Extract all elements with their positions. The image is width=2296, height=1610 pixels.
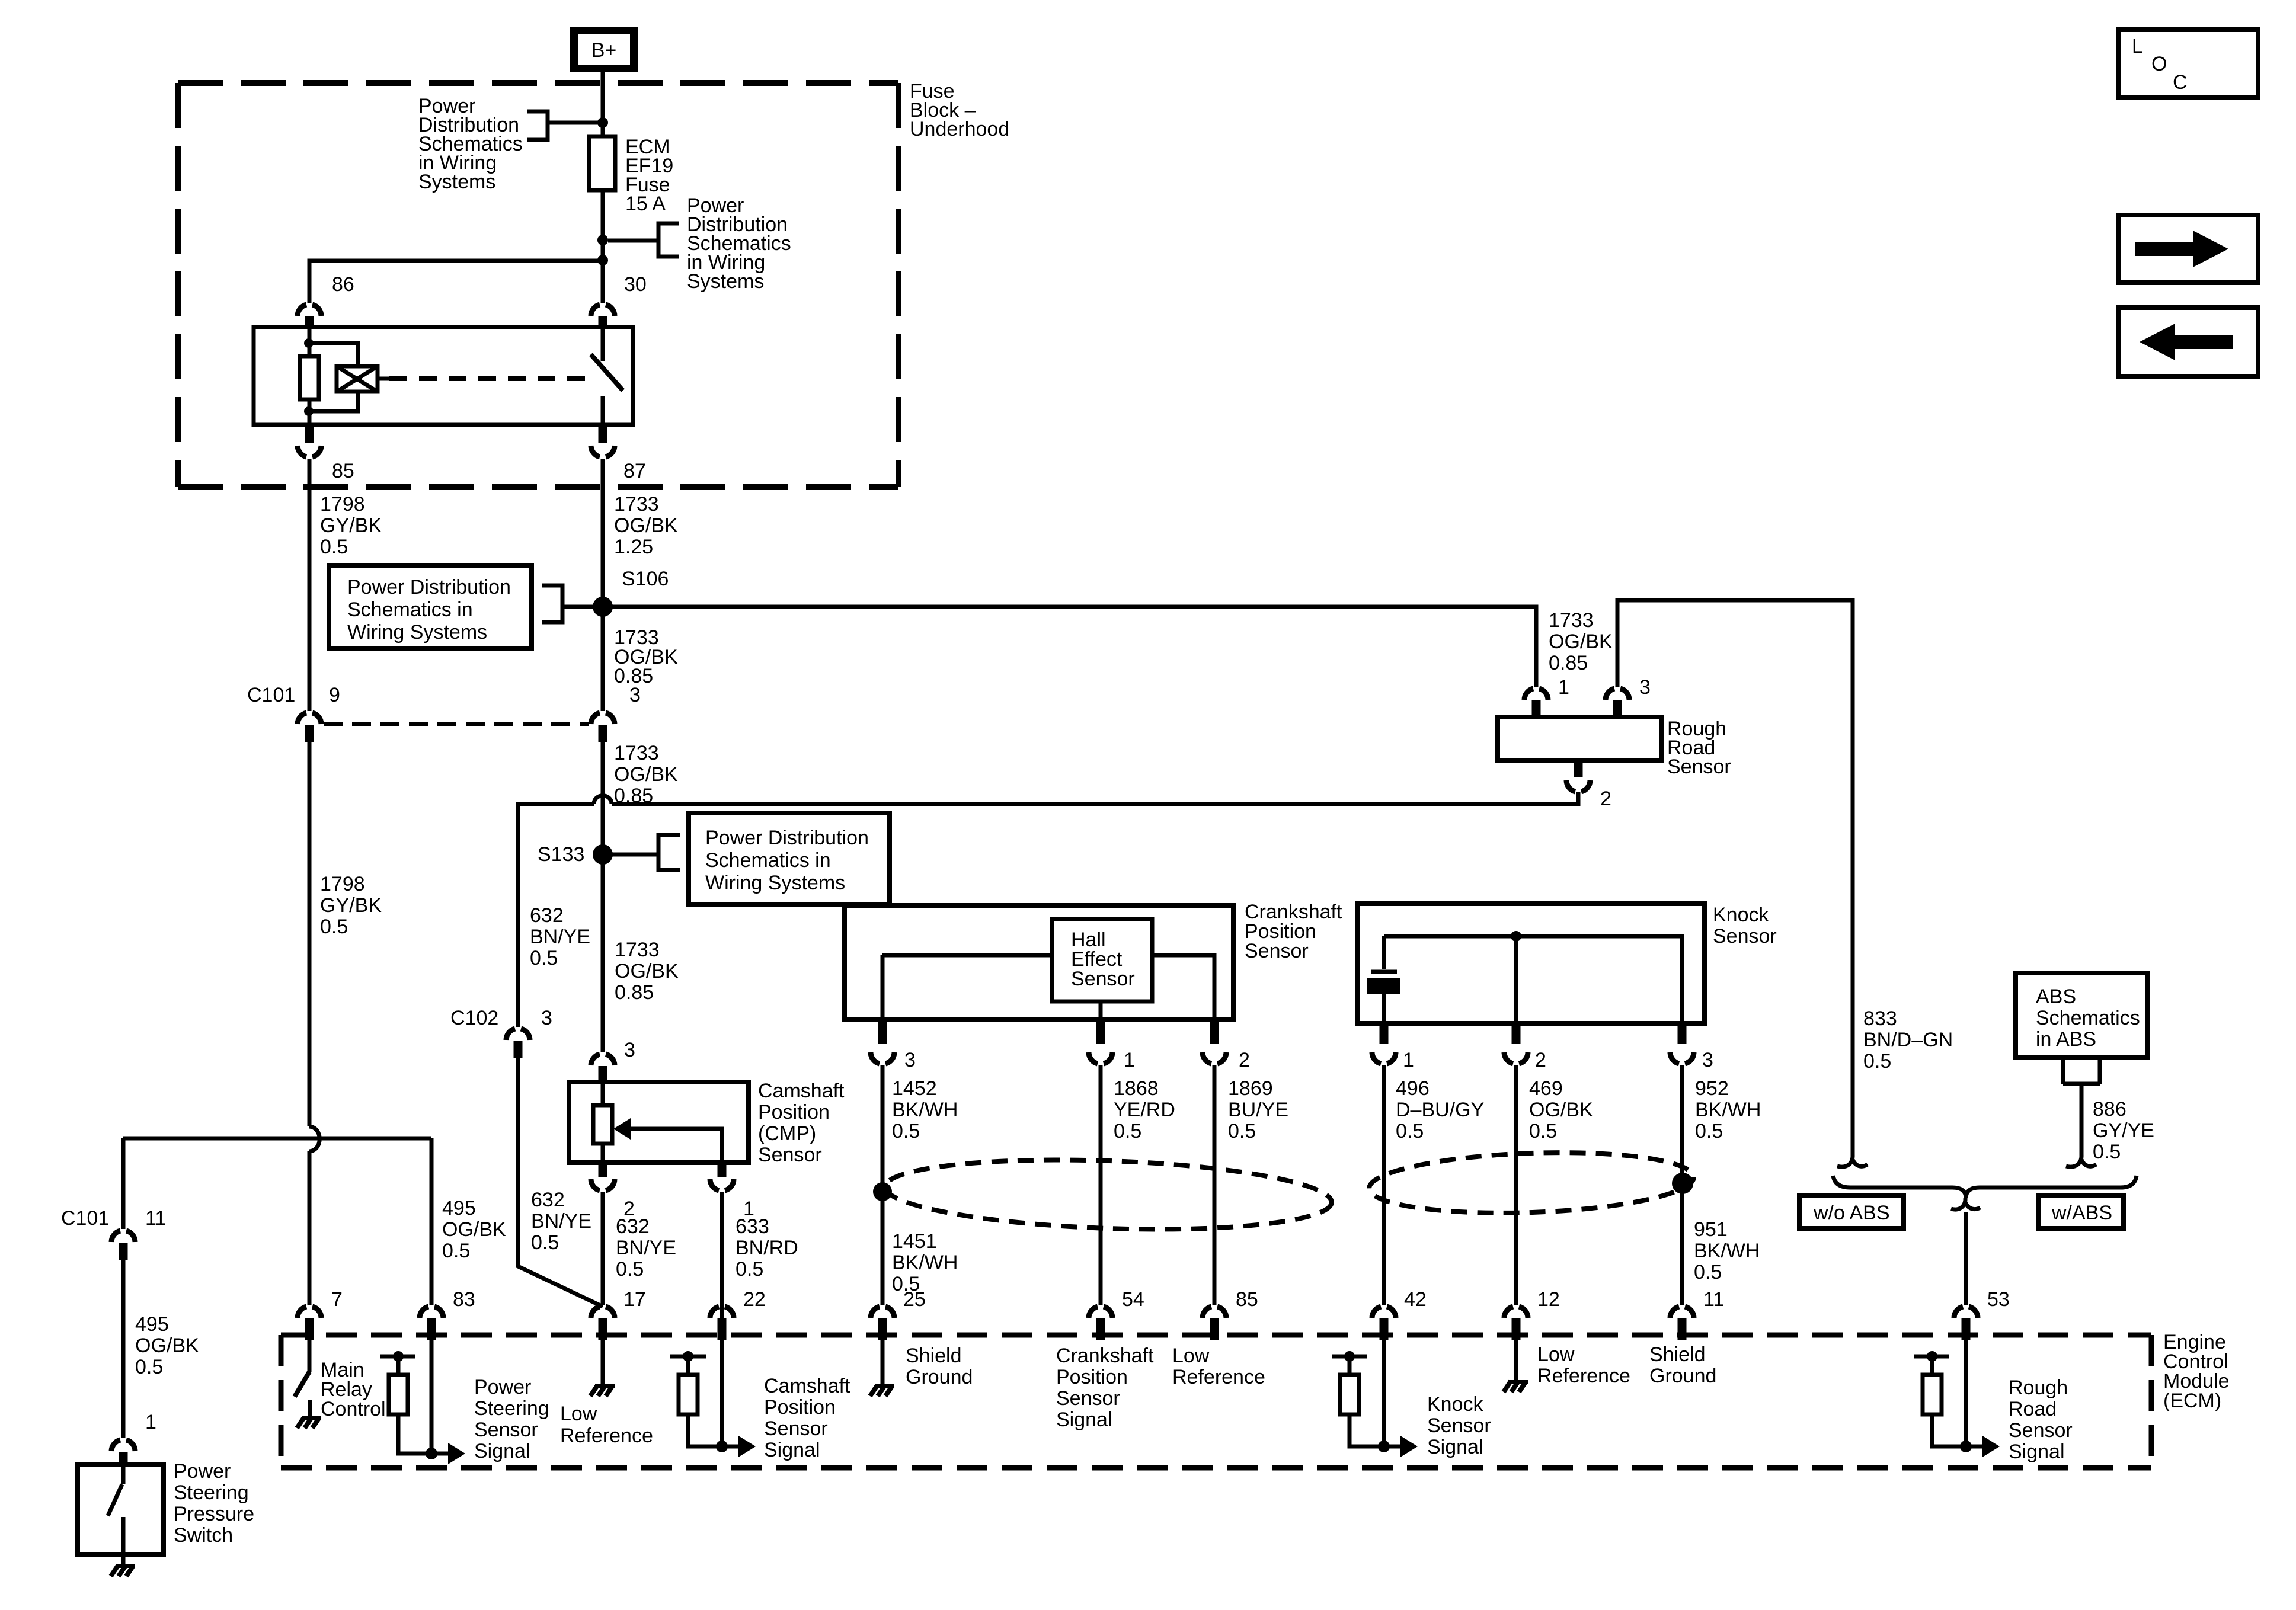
svg-text:1: 1 [1124, 1049, 1135, 1071]
shield ellipse (crank) [884, 1153, 1333, 1236]
svg-text:632: 632 [616, 1215, 650, 1238]
svg-text:S106: S106 [622, 568, 669, 590]
pin 86 connector [298, 305, 321, 316]
svg-text:Signal: Signal [1427, 1436, 1483, 1458]
label 1733 OG/BK 0.85 (below S106) [614, 626, 678, 687]
svg-text:ABS: ABS [2036, 985, 2076, 1008]
CMP pin 1 connector [718, 1164, 727, 1177]
wire pin 83 into ECM [430, 1340, 434, 1454]
svg-text:C102: C102 [450, 1007, 498, 1029]
label Camshaft Position Sensor Signal [764, 1375, 850, 1461]
svg-text:0.5: 0.5 [135, 1356, 163, 1378]
svg-text:3: 3 [904, 1049, 916, 1071]
svg-text:Camshaft: Camshaft [764, 1375, 850, 1397]
back arrow box [2118, 308, 2258, 376]
node: supply dot [1927, 1351, 1937, 1362]
knock sensor internal wires [1384, 936, 1682, 1023]
connector C101 pin 3 [591, 713, 615, 724]
svg-text:Low: Low [560, 1403, 597, 1425]
svg-text:87: 87 [623, 460, 646, 482]
ECM pin 42 connector [1372, 1307, 1396, 1318]
bracket: power distribution reference at S133 [658, 835, 680, 870]
svg-text:12: 12 [1537, 1288, 1560, 1311]
svg-text:C: C [2173, 71, 2188, 94]
arrow camshaft position sensor signal [722, 1445, 741, 1449]
wire 1869 BU/YE to ECM 85 [1213, 1065, 1217, 1305]
pin 30 connector [591, 305, 615, 316]
wire switch to ground [121, 1554, 126, 1565]
boxed label Power Distribution Schematics in Wiring Systems (S133) [689, 813, 890, 904]
wire fuse to relay pin 30 [601, 190, 605, 303]
svg-text:Switch: Switch [174, 1524, 233, 1547]
crank sensor internal wires [882, 955, 1214, 1019]
svg-text:YE/RD: YE/RD [1114, 1099, 1175, 1121]
svg-text:83: 83 [453, 1288, 475, 1311]
svg-text:86: 86 [332, 273, 354, 296]
wire 886 GY/YE [2080, 1084, 2084, 1156]
wire 1733 OG/BK relay 87 to S106 [601, 459, 605, 711]
svg-text:Ground: Ground [906, 1366, 973, 1388]
relay coil (crossed box) [337, 366, 378, 392]
label 632 BN/YE 0.5 (CMP signal low) [616, 1215, 676, 1281]
svg-text:0.5: 0.5 [320, 536, 348, 558]
wire B+ to fuse [601, 72, 605, 136]
svg-text:Sensor: Sensor [1427, 1414, 1491, 1437]
wire 496 D-BU/GY to ECM 42 [1382, 1065, 1386, 1305]
svg-text:BK/WH: BK/WH [892, 1099, 958, 1121]
wire hop over main relay wire [309, 1126, 319, 1151]
CMP potentiometer [601, 1082, 605, 1163]
wire 1733 OG/BK C101-3 to S133 [601, 742, 605, 1052]
svg-text:Sensor: Sensor [1071, 968, 1135, 990]
arrow knock sensor signal [1384, 1445, 1403, 1449]
svg-text:1869: 1869 [1228, 1077, 1273, 1100]
svg-text:Sensor: Sensor [1667, 756, 1731, 778]
svg-text:Rough: Rough [2009, 1377, 2068, 1399]
svg-text:1798: 1798 [320, 873, 365, 895]
svg-text:O: O [2151, 53, 2167, 75]
node: knock shield splice dot [1672, 1173, 1693, 1194]
svg-text:OG/BK: OG/BK [614, 514, 678, 537]
svg-text:GY/BK: GY/BK [320, 514, 382, 537]
power steering pressure switch box [78, 1465, 164, 1554]
svg-text:Wiring Systems: Wiring Systems [347, 621, 487, 644]
wire resistor to pin 83 junction [398, 1414, 431, 1454]
svg-text:2: 2 [1600, 788, 1611, 810]
wire S106 to rough road sensor pin 1 [610, 607, 1536, 687]
ECM pin 54 connector [1089, 1307, 1112, 1318]
svg-text:Schematics in: Schematics in [347, 598, 473, 621]
B+ battery feed box [570, 27, 638, 72]
wire 1798 GY/BK C101-9 to ECM pin 7 [308, 742, 312, 1305]
svg-text:BK/WH: BK/WH [1694, 1240, 1760, 1262]
ECM pin 22 connector [710, 1307, 734, 1318]
svg-text:Sensor: Sensor [1713, 925, 1777, 948]
label 1733 OG/BK 0.85 (rough road) [1549, 609, 1613, 674]
svg-text:w/ABS: w/ABS [2051, 1202, 2112, 1224]
ground (main relay control) [302, 1416, 321, 1420]
w/o ABS tag box [1799, 1196, 1904, 1228]
knock pin 3 connector [1678, 1025, 1687, 1044]
LOC legend box [2118, 30, 2258, 97]
svg-text:2: 2 [1535, 1049, 1546, 1071]
svg-text:1: 1 [1403, 1049, 1414, 1071]
svg-text:1.25: 1.25 [614, 536, 653, 558]
bracket below ABS box [2063, 1057, 2100, 1084]
wire resistor to pin 42 junction [1350, 1414, 1384, 1446]
svg-text:Shield: Shield [906, 1345, 962, 1367]
wire pin 53 into ECM [1964, 1340, 1968, 1446]
CMP wiper arrow [628, 1129, 722, 1163]
svg-text:632: 632 [531, 1189, 565, 1211]
label 951 BK/WH 0.5 [1694, 1218, 1760, 1283]
svg-text:0.5: 0.5 [2093, 1141, 2121, 1163]
relay switch [601, 327, 605, 361]
svg-text:0.5: 0.5 [1228, 1120, 1256, 1142]
svg-text:Sensor: Sensor [764, 1417, 828, 1440]
svg-text:Sensor: Sensor [1245, 940, 1309, 962]
svg-text:0.5: 0.5 [1114, 1120, 1141, 1142]
svg-text:1452: 1452 [892, 1077, 937, 1100]
shield ellipse (knock) [1368, 1147, 1694, 1218]
svg-text:1868: 1868 [1114, 1077, 1159, 1100]
hall effect sensor box [1052, 919, 1152, 1001]
ECM pin 17 connector [591, 1307, 615, 1318]
power steering signal pull-up: supply bar [380, 1355, 415, 1359]
svg-text:BK/WH: BK/WH [892, 1251, 958, 1274]
label ECM EF19 Fuse 15 A [625, 136, 673, 215]
svg-text:BN/YE: BN/YE [530, 926, 590, 948]
svg-text:OG/BK: OG/BK [1549, 630, 1613, 653]
label Power Steering Sensor Signal [474, 1376, 549, 1462]
forward arrow box [2118, 215, 2258, 283]
svg-text:D–BU/GY: D–BU/GY [1396, 1099, 1484, 1121]
svg-text:(CMP): (CMP) [758, 1122, 816, 1145]
svg-text:B+: B+ [591, 39, 617, 62]
svg-text:Sensor: Sensor [2009, 1419, 2073, 1442]
label Knock Sensor Signal [1427, 1393, 1491, 1458]
wire rough road pin 3 to 833 drop [1617, 600, 1853, 1156]
wire to right power distribution reference [608, 239, 658, 243]
svg-text:0.85: 0.85 [1549, 652, 1588, 674]
svg-text:0.85: 0.85 [615, 981, 654, 1004]
label Rough Road Sensor [1667, 718, 1731, 778]
svg-text:BN/D–GN: BN/D–GN [1863, 1029, 1953, 1051]
ECM pin 12 connector [1504, 1307, 1528, 1318]
resistor (rough road signal) [1930, 1356, 1934, 1375]
wire 495 OG/BK to pressure switch [121, 1260, 126, 1438]
connector C101 dashed line [324, 722, 589, 726]
svg-text:Low: Low [1172, 1345, 1210, 1367]
svg-text:1451: 1451 [892, 1230, 937, 1253]
svg-text:11: 11 [1703, 1288, 1724, 1311]
svg-text:Sensor: Sensor [1056, 1387, 1120, 1410]
svg-text:Reference: Reference [1172, 1366, 1265, 1388]
svg-text:in ABS: in ABS [2036, 1028, 2096, 1051]
wire 952 BK/WH to ECM 11 [1680, 1065, 1684, 1305]
node: knock internal dot [1511, 931, 1521, 942]
svg-text:1798: 1798 [320, 493, 365, 516]
svg-text:886: 886 [2093, 1098, 2126, 1121]
label Low Reference (pin 12) [1537, 1343, 1630, 1387]
svg-text:OG/BK: OG/BK [615, 960, 679, 982]
pin 85 connector [305, 426, 314, 443]
svg-text:Ground: Ground [1649, 1365, 1716, 1387]
svg-text:Low: Low [1537, 1343, 1575, 1366]
knock piezo element [1371, 970, 1397, 974]
resistor (power steering signal) [396, 1356, 401, 1375]
label 1733 OG/BK 0.85 (below S133) [615, 939, 679, 1004]
node: coil top dot [304, 338, 314, 348]
option hook above pin 53 wire [1951, 1198, 1980, 1209]
svg-text:Position: Position [1056, 1366, 1128, 1388]
ECM pin 53 connector [1954, 1307, 1978, 1318]
wire 1452 BK/WH to ECM 25 [881, 1065, 885, 1305]
svg-text:0.5: 0.5 [530, 947, 558, 969]
option hook end of 886 wire [2066, 1154, 2096, 1167]
label Low Reference (pin 17) [560, 1403, 653, 1447]
svg-text:Sensor: Sensor [474, 1419, 538, 1441]
crank pin 1 connector [1096, 1020, 1105, 1044]
svg-text:0.5: 0.5 [320, 916, 348, 938]
label Crankshaft Position Sensor [1245, 901, 1342, 962]
label 496 D-BU/GY 0.5 [1396, 1077, 1484, 1142]
svg-text:w/o ABS: w/o ABS [1813, 1202, 1890, 1224]
svg-text:Wiring Systems: Wiring Systems [705, 872, 845, 894]
svg-text:Reference: Reference [560, 1425, 653, 1447]
label 633 BN/RD 0.5 [736, 1215, 798, 1281]
svg-text:7: 7 [331, 1288, 343, 1311]
svg-text:BK/WH: BK/WH [1695, 1099, 1761, 1121]
pressure switch contacts [108, 1465, 123, 1554]
node: coil bottom dot [304, 406, 314, 416]
fuse ECM EF19 15A [589, 136, 615, 190]
svg-text:Power Distribution: Power Distribution [347, 576, 511, 598]
wire to left power distribution reference [548, 121, 598, 125]
label 1451 BK/WH 0.5 [892, 1230, 958, 1295]
ECM pin 85 connector [1203, 1307, 1226, 1318]
svg-text:Underhood: Underhood [910, 118, 1009, 140]
svg-text:17: 17 [623, 1288, 646, 1311]
label 495 OG/BK 0.5 (right) [442, 1197, 506, 1262]
rough road sensor pin 3 connector [1606, 689, 1629, 700]
svg-text:952: 952 [1695, 1077, 1729, 1100]
svg-text:S133: S133 [538, 843, 584, 866]
node: pin 22 junction dot [716, 1441, 728, 1452]
svg-text:C101: C101 [247, 684, 295, 706]
w/ABS tag box [2039, 1196, 2124, 1228]
label Main Relay Control [321, 1359, 386, 1420]
label 1798 GY/BK 0.5 [320, 493, 382, 558]
wire 633 BN/RD CMP-1 to ECM 22 [720, 1192, 724, 1446]
ECM pin 11 connector [1670, 1307, 1694, 1318]
label Low Reference (pin 85) [1172, 1345, 1265, 1388]
svg-text:469: 469 [1529, 1077, 1563, 1100]
svg-text:0.5: 0.5 [442, 1240, 470, 1262]
resistor in relay [300, 356, 319, 399]
svg-text:Power: Power [174, 1460, 231, 1483]
svg-text:Schematics in: Schematics in [705, 849, 831, 872]
boxed label ABS Schematics in ABS [2016, 973, 2147, 1057]
knock pin 1 connector [1380, 1025, 1389, 1044]
node: junction dot below fuse [597, 235, 608, 245]
wire branch to relay pin 86 [309, 261, 598, 303]
svg-text:OG/BK: OG/BK [135, 1334, 199, 1357]
bracket: power distribution reference right [658, 223, 679, 257]
ECM pin 83 connector [420, 1307, 443, 1318]
svg-text:Signal: Signal [1056, 1409, 1112, 1431]
svg-text:42: 42 [1404, 1288, 1427, 1311]
label Power Distribution Schematics in Wiring Systems (left) [418, 95, 523, 193]
label 1869 BU/YE 0.5 [1228, 1077, 1288, 1142]
svg-text:Systems: Systems [418, 171, 495, 193]
label 1452 BK/WH 0.5 [892, 1077, 958, 1142]
svg-text:1733: 1733 [615, 939, 660, 961]
knock signal pull-up: supply bar [1332, 1355, 1367, 1359]
svg-text:Position: Position [764, 1396, 836, 1419]
label 1798 GY/BK 0.5 (lower) [320, 873, 382, 938]
svg-text:9: 9 [329, 684, 340, 706]
ECM pin 25 connector [871, 1307, 894, 1318]
svg-text:Systems: Systems [687, 270, 764, 293]
svg-text:Pressure: Pressure [174, 1503, 254, 1525]
label Crankshaft Position Sensor Signal [1056, 1345, 1154, 1431]
wire 632 BN/YE CMP-2 to ECM 17 [601, 1192, 605, 1305]
crankshaft position sensor box [845, 905, 1233, 1019]
svg-text:22: 22 [743, 1288, 766, 1311]
svg-text:Steering: Steering [174, 1481, 249, 1504]
label 632 BN/YE 0.5 (above C102) [530, 904, 590, 969]
bracket: power distribution reference at S106 [542, 585, 562, 622]
svg-text:0.5: 0.5 [736, 1258, 763, 1281]
svg-text:496: 496 [1396, 1077, 1430, 1100]
label Rough Road Sensor Signal [2009, 1377, 2073, 1463]
svg-text:0.5: 0.5 [1396, 1120, 1424, 1142]
label 1868 YE/RD 0.5 [1114, 1077, 1175, 1142]
connector C101 pin 9 [298, 713, 321, 724]
label 469 OG/BK 0.5 [1529, 1077, 1593, 1142]
label Power Steering Pressure Switch [174, 1460, 254, 1547]
node: junction dot above fuse [597, 117, 608, 128]
wire resistor to pin 22 junction [688, 1414, 722, 1446]
svg-text:53: 53 [1987, 1288, 2010, 1311]
node: shield splice dot [873, 1182, 892, 1201]
camshaft position sensor box [569, 1082, 749, 1163]
label Shield Ground (pin 25) [906, 1345, 973, 1388]
wire to ECM pin 53 [1964, 1212, 1968, 1305]
boxed label Power Distribution Schematics in Wiring Systems (S106) [329, 565, 532, 648]
option merge brace [1833, 1176, 2137, 1198]
svg-text:OG/BK: OG/BK [442, 1218, 506, 1241]
camshaft signal pull-up: supply bar [670, 1355, 706, 1359]
label Fuse Block Underhood [910, 80, 1009, 140]
knock pin 2 connector [1512, 1025, 1521, 1044]
svg-text:632: 632 [530, 904, 564, 927]
svg-text:BN/YE: BN/YE [616, 1237, 676, 1259]
svg-text:2: 2 [1239, 1049, 1250, 1071]
wire 632 BN/YE C102 to ECM pin 17 [518, 1058, 603, 1307]
svg-text:OG/BK: OG/BK [1529, 1099, 1593, 1121]
bracket: power distribution reference left [527, 111, 548, 140]
svg-text:0.5: 0.5 [1863, 1050, 1891, 1073]
CMP pin 2 connector [599, 1164, 607, 1177]
relay K (main relay) box [254, 327, 633, 425]
svg-text:GY/YE: GY/YE [2093, 1119, 2154, 1142]
svg-text:1733: 1733 [1549, 609, 1594, 632]
main relay control switch in ECM [308, 1340, 312, 1372]
node: supply dot [393, 1351, 404, 1362]
svg-text:Signal: Signal [474, 1440, 530, 1462]
label Knock Sensor [1713, 904, 1777, 948]
svg-text:Shield: Shield [1649, 1343, 1706, 1366]
crank pin 2 connector [1210, 1020, 1219, 1044]
wire pin 25 to ground [881, 1340, 885, 1385]
ground (pressure switch) [116, 1564, 135, 1568]
svg-text:Knock: Knock [1713, 904, 1769, 926]
svg-text:Reference: Reference [1537, 1365, 1630, 1387]
svg-text:1: 1 [1558, 676, 1569, 699]
svg-text:GY/BK: GY/BK [320, 894, 382, 917]
resistor (knock signal) [1348, 1356, 1352, 1375]
svg-text:Schematics: Schematics [2036, 1007, 2140, 1029]
rough road signal pull-up: supply bar [1914, 1355, 1949, 1359]
svg-text:85: 85 [332, 460, 354, 482]
svg-text:11: 11 [145, 1207, 166, 1230]
svg-text:Power Distribution: Power Distribution [705, 827, 869, 849]
svg-text:1733: 1733 [614, 493, 659, 516]
svg-text:1733: 1733 [614, 742, 659, 764]
svg-text:BU/YE: BU/YE [1228, 1099, 1288, 1121]
svg-text:15 A: 15 A [625, 193, 666, 215]
wire coil to armature link [378, 377, 389, 381]
wire hop over 1733 wire [594, 796, 612, 804]
wire S106 to reference bracket [562, 605, 595, 609]
svg-text:Power: Power [474, 1376, 531, 1398]
svg-text:Sensor: Sensor [758, 1144, 822, 1166]
svg-text:OG/BK: OG/BK [614, 763, 678, 786]
svg-text:54: 54 [1122, 1288, 1144, 1311]
node: supply dot [1344, 1351, 1355, 1362]
svg-text:3: 3 [541, 1007, 552, 1029]
svg-text:30: 30 [624, 273, 647, 296]
label 952 BK/WH 0.5 [1695, 1077, 1761, 1142]
label 833 BN/D-GN 0.5 [1863, 1007, 1953, 1073]
label 886 GY/YE 0.5 [2093, 1098, 2154, 1163]
wire pin 42 into ECM [1382, 1340, 1386, 1446]
svg-text:Steering: Steering [474, 1397, 549, 1420]
wire 1798 GY/BK relay 85 to C101-9 [308, 459, 312, 711]
label 632 BN/YE 0.5 (below C102) [531, 1189, 591, 1254]
pin 87 connector [599, 426, 607, 443]
svg-text:0.5: 0.5 [1694, 1261, 1722, 1283]
svg-text:0.5: 0.5 [1695, 1120, 1723, 1142]
label 1733 OG/BK 1.25 [614, 493, 678, 558]
ECM dashed border [281, 1335, 2151, 1468]
svg-text:Signal: Signal [764, 1439, 820, 1461]
label Camshaft Position (CMP) Sensor [758, 1080, 845, 1166]
splice S106 [593, 597, 613, 617]
node: supply dot [683, 1351, 693, 1362]
label Engine Control Module (ECM) [2163, 1331, 2230, 1412]
wire resistor to pin 53 junction [1932, 1414, 1966, 1446]
svg-text:3: 3 [1639, 676, 1651, 699]
svg-text:633: 633 [736, 1215, 769, 1238]
svg-text:Signal: Signal [2009, 1441, 2065, 1463]
label 1733 OG/BK 0.85 (below C101) [614, 742, 678, 807]
arrow power steering sensor signal [431, 1452, 450, 1456]
wire 1868 YE/RD to ECM 54 [1099, 1065, 1103, 1305]
svg-text:Knock: Knock [1427, 1393, 1483, 1416]
